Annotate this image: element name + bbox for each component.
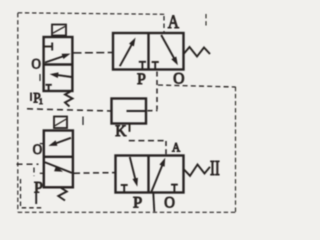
pilot link line to right border — [158, 85, 236, 87]
port O drop line M1 — [156, 72, 158, 110]
pilot line V1 to main valve — [74, 52, 113, 54]
main valve M1 left arrow — [120, 38, 136, 67]
dashed line left of V2 — [17, 163, 39, 165]
main valve M1 right blocked port T — [152, 62, 159, 69]
valve V2 left port tick — [40, 172, 44, 174]
delay pilot line vertical to A of valve V3 — [165, 141, 167, 155]
label I bar — [30, 93, 32, 102]
junction tick below pilot line — [82, 117, 84, 126]
svg-text:P: P — [137, 71, 146, 88]
reservoir K right dashes — [148, 110, 158, 112]
delay pilot line horizontal — [129, 140, 166, 142]
port A line M1 — [163, 16, 165, 33]
valve V2 button actuator — [54, 117, 67, 129]
svg-text:O: O — [164, 195, 175, 212]
svg-text:P: P — [133, 195, 142, 212]
port P stub V2 — [35, 193, 37, 204]
valve V1 lower arrow — [50, 72, 72, 78]
valve V1 button actuator — [52, 25, 66, 36]
valve V3 left arrow — [130, 157, 138, 187]
main valve M1 right arrow — [161, 35, 178, 65]
enclosure border top — [18, 13, 165, 15]
valve V3 body — [116, 156, 184, 193]
valve V3 left blocked port T — [121, 185, 128, 192]
valve V2 O port tick — [40, 143, 44, 145]
valve V2 body — [44, 131, 73, 188]
reservoir K left pilot line — [27, 109, 111, 111]
port P stub V3 — [153, 193, 154, 212]
enclosure border left — [17, 13, 19, 212]
valve V3 right arrow — [151, 158, 165, 192]
valve V1 lower blocked port T — [46, 85, 52, 91]
svg-text:K: K — [115, 123, 127, 140]
border stub top right — [205, 14, 207, 27]
valve V3 spring — [184, 165, 210, 176]
svg-text:A: A — [168, 12, 180, 33]
valve V1 return spring — [65, 92, 73, 107]
reservoir K inner pipe — [127, 110, 147, 112]
svg-text:O: O — [32, 57, 42, 73]
valve V2 return spring — [58, 188, 67, 201]
valve V2 lower arrow — [45, 162, 72, 173]
reservoir K bottom stub — [129, 124, 131, 132]
valve V1 body — [44, 37, 73, 91]
valve V1 upper arrow — [45, 54, 71, 63]
svg-text:1: 1 — [39, 97, 43, 106]
reservoir K box — [112, 99, 147, 124]
valve V2 upper arrow — [49, 138, 72, 146]
main valve M1 spring — [184, 47, 210, 57]
enclosure border right — [235, 87, 237, 213]
port O stub dash V1 — [39, 74, 41, 81]
svg-text:II: II — [210, 156, 220, 180]
valve V3 right blocked port T — [171, 185, 178, 193]
svg-text:A: A — [172, 139, 181, 154]
main valve M1 body — [113, 33, 184, 70]
svg-text:O: O — [33, 142, 43, 158]
pilot line V2 to valve V3 — [74, 172, 115, 175]
corner line bottom left — [21, 179, 45, 208]
main valve M1 left blocked port T — [139, 62, 146, 70]
dashed vertical step — [33, 168, 35, 177]
valve V1 upper blocked port T — [44, 43, 52, 51]
enclosure border bottom — [18, 211, 236, 213]
